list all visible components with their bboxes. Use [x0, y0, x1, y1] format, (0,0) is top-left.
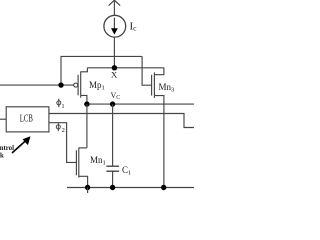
label phi2 — [56, 123, 65, 134]
wire Mp1 gate line to left edge — [0, 84, 74, 86]
svg-text:Mn3: Mn3 — [159, 82, 175, 94]
wire node X horizontal rail — [87, 67, 163, 69]
svg-text:X: X — [111, 70, 117, 80]
ground rail wire at bottom — [67, 187, 194, 189]
transistor Mn3 — [152, 68, 164, 188]
capacitor C1 — [106, 104, 119, 187]
svg-text:control: control — [0, 145, 14, 152]
junction rail / C1 bottom — [110, 185, 115, 190]
wire phi1 from LCB to right edge — [49, 114, 194, 128]
svg-text:Ic: Ic — [130, 21, 138, 33]
junction rail / Mn1 source (with stub below) — [85, 185, 90, 193]
wire LCB input from left edge — [0, 118, 6, 120]
wire Mn1 drain lead — [86, 104, 88, 148]
svg-text:Mp1: Mp1 — [89, 80, 105, 92]
annotation arrow control clock — [12, 136, 31, 153]
block LCB — [6, 107, 49, 132]
net Vc horizontal wire — [87, 103, 194, 105]
junction Vc / Mp1 drain / Mn1 drain — [84, 101, 89, 106]
svg-text:Mn1: Mn1 — [90, 155, 106, 167]
transistor Mp1 — [74, 68, 88, 104]
junction Vc / C1 — [110, 101, 115, 106]
transistor Mn1 — [76, 148, 87, 188]
wire Mn3 gate feed from top rail — [142, 56, 152, 85]
current source Ic — [104, 15, 126, 37]
junction rail / Mn3 source — [161, 185, 166, 190]
up arrowhead at top edge — [109, 0, 121, 5]
label phi1 — [57, 99, 65, 110]
node X junction dot — [112, 65, 117, 70]
svg-text:LCB: LCB — [20, 114, 33, 125]
junction gate line / top rail — [58, 82, 63, 87]
svg-text:C1: C1 — [122, 165, 131, 177]
svg-text:clock: clock — [0, 153, 4, 160]
svg-text:VC: VC — [111, 91, 121, 101]
label control clock (cut off at left edge) — [0, 145, 14, 160]
svg-text:2: 2 — [62, 127, 65, 134]
wire from top edge down to current source — [113, 0, 115, 15]
wire phi2 from LCB to Mn1 gate — [49, 123, 77, 163]
wire top gate rail — [61, 56, 142, 85]
svg-text:1: 1 — [61, 103, 64, 110]
wire from current source to node X — [113, 37, 115, 68]
